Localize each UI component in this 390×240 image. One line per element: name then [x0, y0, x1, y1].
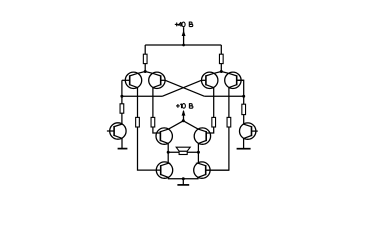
wire VT5 emitter to ground: [121, 138, 123, 148]
resistor R3: [120, 104, 124, 113]
transistor VT7: [183, 121, 210, 145]
wire R4 to VT10 collector: [243, 115, 245, 124]
wire R1 to left pair collectors: [144, 64, 146, 72]
wire left base bus vertical: [121, 80, 123, 96]
wire VT2 emitter to VT6 base: [153, 127, 161, 133]
wire VT4 emitter to VT9 base: [206, 127, 229, 170]
ground center: [177, 184, 189, 186]
node left pair collector node: [144, 70, 147, 73]
node right bus node: [242, 95, 245, 98]
node bridge ground node: [182, 177, 185, 180]
wire rail to R1: [144, 45, 146, 54]
wire speaker wire: [168, 151, 198, 153]
wire VT1 emitter drop: [137, 88, 139, 118]
wire right base bus horizontal: [204, 95, 244, 97]
resistor R5: [136, 117, 140, 127]
node right pair collector node: [220, 70, 223, 73]
resistor R4: [242, 104, 246, 114]
+10V supply arrow: [182, 110, 186, 121]
+40V supply arrow: [182, 27, 186, 45]
label +40 V: [175, 22, 193, 27]
transistor VT8: [156, 162, 172, 178]
transistor VT10: [240, 123, 258, 139]
wire VT4 emitter drop: [228, 88, 230, 118]
node right output node: [197, 151, 200, 154]
wire VT9 emitter to ground node: [183, 177, 198, 178]
transistor VT9: [194, 162, 229, 178]
wire R4 top to right bus node: [243, 96, 245, 104]
wire VT8 emitter to ground node: [169, 177, 184, 178]
wire R2 to right pair collectors: [220, 64, 222, 72]
transistor VT3: [201, 72, 221, 89]
wire crossover diagonal from VT2 base: [165, 80, 204, 96]
wire VT6 emitter to left output node: [167, 143, 169, 163]
loudspeaker BA1: [176, 147, 190, 154]
wire VT10 emitter to ground: [243, 138, 245, 148]
resistor R8: [227, 117, 231, 127]
wire left base bus horizontal: [122, 95, 163, 97]
resistor R6: [151, 117, 155, 127]
wire ground stem: [182, 179, 184, 185]
wire +40V rail: [145, 44, 221, 46]
node left bus node: [120, 95, 123, 98]
wire VT2 emitter drop: [152, 88, 154, 118]
node left output node: [167, 151, 170, 154]
transistor VT1: [122, 72, 145, 89]
wire VT3 emitter drop: [213, 88, 215, 118]
resistor R2: [219, 54, 223, 63]
wire crossover diagonal from VT3 base: [163, 80, 202, 96]
resistor R7: [212, 117, 216, 127]
label +10 V: [176, 104, 193, 109]
wire R3 to VT5 collector: [121, 113, 123, 123]
transistor VT5: [107, 123, 126, 139]
ground under VT10: [237, 148, 251, 150]
wire VT3 emitter to VT7 base: [206, 127, 214, 133]
resistor R1: [143, 54, 147, 63]
transistor VT4: [221, 72, 243, 89]
wire right base bus vertical: [237, 80, 244, 96]
ground under VT5: [118, 148, 128, 150]
node inner bridge collector node: [182, 119, 185, 122]
transistor VT6: [156, 121, 183, 145]
wire R3 top to left bus node: [121, 96, 123, 104]
node rail-arrow junction: [182, 44, 185, 47]
wire VT1 emitter to VT8 base: [138, 127, 161, 170]
transistor VT2: [145, 72, 165, 89]
wire VT7 emitter to right output node: [197, 143, 199, 163]
wire rail to R2: [220, 45, 222, 54]
